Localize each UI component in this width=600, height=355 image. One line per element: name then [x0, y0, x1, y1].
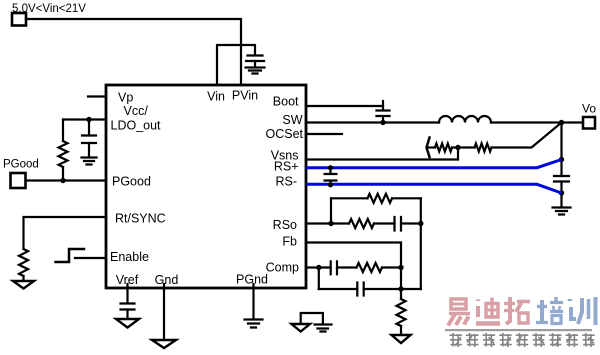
wire [374, 222, 395, 224]
ground earth C_vcc [82, 143, 97, 165]
svg-text:LDO_out: LDO_out [111, 119, 162, 133]
wire rso node vertical [420, 198, 422, 289]
wire loop top [331, 197, 368, 199]
inductor L1 [439, 116, 491, 122]
node comp junction [316, 265, 321, 270]
watermark logo big characters [448, 297, 596, 326]
ground earth C_out [553, 208, 571, 215]
wire PGnd stub [252, 284, 254, 319]
svg-text:Vcc/: Vcc/ [124, 104, 149, 118]
terminal Vo [583, 117, 595, 129]
svg-text:Fb: Fb [282, 235, 297, 249]
capacitor C_boot [377, 101, 390, 123]
node fb junction [455, 145, 460, 150]
resistor R_rso [349, 219, 374, 228]
resistor R_rt [19, 249, 28, 276]
svg-text:Vin: Vin [207, 90, 225, 104]
char tuo [504, 297, 530, 324]
watermark small gray text [449, 333, 594, 347]
wire Vin input top [26, 19, 241, 85]
ground earth PGnd [245, 320, 263, 328]
wire Comp [306, 266, 331, 268]
resistor R_fbgnd [397, 299, 406, 326]
ground arrow bridge [292, 324, 311, 332]
svg-text:PGood: PGood [112, 175, 151, 189]
wire Fb [306, 243, 401, 300]
wire Vsns [306, 148, 458, 160]
resistor R_pgood pullup [62, 120, 64, 142]
char pei [536, 297, 563, 324]
ground arrow Gnd [152, 340, 176, 348]
svg-text:Vp: Vp [118, 91, 133, 105]
svg-text:5.0V<Vin<21V: 5.0V<Vin<21V [12, 3, 86, 15]
IC U1 body [106, 85, 306, 288]
ground earth bridge [315, 325, 332, 332]
wire RS+ blue [306, 160, 562, 168]
sense arrow [427, 138, 430, 158]
capacitor C_vcc [82, 120, 96, 144]
output cap chain [560, 123, 562, 177]
svg-text:PGnd: PGnd [236, 273, 268, 287]
wire RSo [306, 222, 349, 224]
wire Boot [306, 105, 383, 107]
wire PGood [26, 179, 107, 181]
resistor R_loop [368, 194, 393, 203]
ground earth Cin [246, 61, 265, 74]
capacitor C_rso [395, 217, 402, 231]
svg-text:Boot: Boot [273, 95, 299, 109]
wire Vref stub [126, 284, 128, 303]
wire [452, 146, 475, 148]
svg-text:Vo: Vo [582, 102, 596, 116]
wire SW to Vo [491, 121, 583, 123]
node rso junction [418, 221, 423, 226]
wire SW [306, 121, 439, 123]
svg-text:Rt/SYNC: Rt/SYNC [115, 212, 166, 226]
wire Enable [75, 257, 106, 259]
wire [337, 266, 357, 268]
blue sense wires [306, 160, 562, 194]
char yi [448, 299, 470, 326]
svg-text:OCSet: OCSet [265, 127, 303, 141]
svg-text:RS-: RS- [275, 175, 297, 189]
capacitor C_out [554, 176, 569, 182]
wire to Vo node [492, 123, 562, 148]
wire Gnd stub [163, 284, 165, 340]
svg-text:Gnd: Gnd [155, 273, 179, 287]
pin Vp stub [88, 95, 106, 97]
wire RS- blue [306, 184, 562, 193]
capacitor C_low [357, 283, 363, 296]
ground arrow Fb [392, 335, 411, 343]
node Vo junction [559, 120, 564, 125]
wire comp down [318, 268, 320, 290]
node PGood junction [60, 178, 65, 183]
svg-text:RS+: RS+ [274, 160, 299, 174]
capacitor C_vref [121, 304, 135, 310]
svg-text:RSo: RSo [273, 218, 297, 232]
svg-text:PGood: PGood [3, 159, 39, 171]
terminal Vin square [12, 13, 26, 26]
ground arrow Rt [13, 281, 34, 289]
ground arrow Vref [116, 319, 139, 328]
wire Rt/SYNC [24, 217, 107, 249]
wire Vcc/LDO_out [63, 118, 106, 120]
terminal PGood [11, 173, 26, 188]
capacitor C_comp [331, 261, 337, 274]
char xun [570, 297, 596, 325]
wire lower horizontal [319, 288, 358, 290]
char di [476, 298, 500, 324]
enable step symbol [56, 249, 85, 262]
wire OCSet stub [306, 133, 342, 135]
wire arrow to R [428, 146, 435, 148]
wire [401, 222, 421, 224]
capacitor Cin plates [246, 56, 264, 62]
resistor R_comp [357, 263, 383, 272]
wire loop left [330, 198, 332, 223]
node Vcc junction [86, 117, 91, 122]
watermark underline [445, 329, 592, 331]
capacitor C_sense [324, 168, 338, 187]
svg-text:Vref: Vref [116, 273, 139, 287]
svg-text:Comp: Comp [266, 261, 299, 275]
svg-text:Enable: Enable [110, 250, 149, 264]
node boot-sw junction [380, 120, 385, 125]
svg-text:SW: SW [282, 113, 302, 127]
svg-text:PVin: PVin [232, 89, 258, 103]
resistor R_fb1 [435, 144, 452, 152]
wire Vin branch [217, 45, 255, 85]
ground bridge [301, 313, 323, 324]
resistor R_fb2 [475, 144, 492, 152]
